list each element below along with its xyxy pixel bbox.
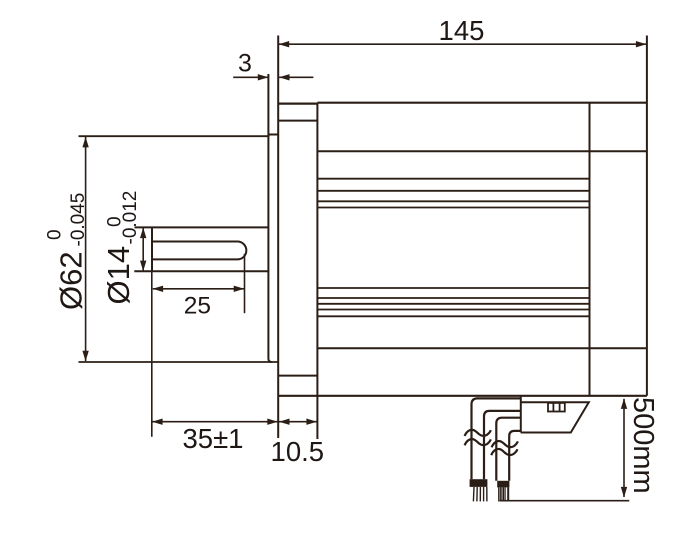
cable 1 wire strands [473,487,487,501]
right tail [279,76,313,78]
cable 1 break wave 1 [465,430,491,436]
up arrow [140,228,146,239]
left arrow [279,419,290,425]
top extension line (flange top) [79,135,270,137]
dim line [85,137,87,361]
right extension line (keyway end) [244,254,246,313]
dim line [142,228,144,271]
upper fin line 4 [317,207,589,209]
right arrow [279,74,290,80]
up arrow [621,398,627,409]
front cap inner bottom line [278,375,317,377]
dim line [623,399,625,497]
slot divider 2 [559,403,561,412]
up arrow [82,137,88,148]
body right edge / 145 extension line [646,36,648,396]
dimension Ø14 [101,191,146,305]
dimension Ø62 [45,136,279,362]
cable 2 wire strands [499,487,505,501]
bottom extension line (wire end) [500,500,630,502]
left tail [233,76,267,78]
upper fin line 3 [317,200,589,202]
dimension 10.5 [271,419,325,468]
lower fin line 3 [317,303,589,305]
lower fin line 1 [317,287,589,289]
svg-text:35±1: 35±1 [183,423,244,454]
left arrow [258,74,269,80]
connector outline with chamfered corner [521,402,589,432]
svg-text:3: 3 [238,50,252,78]
dimension 145 [279,15,647,47]
front end-cap divider [316,103,318,439]
shaft [134,227,268,271]
dimension 500mm [500,397,660,501]
upper fin line 2 [317,190,589,192]
cable 1 (left) [465,398,521,501]
cable 1 break wave 2 [465,439,491,445]
terminal slots rectangle [548,403,565,412]
rear end-cap divider [589,103,591,396]
dimension 35±1 [152,271,278,454]
cable 2 (right) [491,418,521,502]
stator lower boundary line [317,347,647,349]
cable 2 end band [497,481,509,488]
cable 1 inner edge [484,411,521,479]
bottom extension line (flange bottom) [79,361,279,363]
slot divider 1 [552,403,554,412]
flange front face with rounded bottom corner, extended up as extension line for dim 3 [268,74,271,362]
body bottom edge [278,395,647,397]
right arrow [234,286,245,292]
down arrow [82,351,88,362]
cable 2 outer edge [496,418,521,481]
cable 2 break wave 2 [491,449,517,455]
dim line [279,421,317,423]
body top edge [278,102,317,104]
shaft end face [151,227,153,271]
svg-text:-0.045: -0.045 [68,193,89,247]
front cap inner top line [278,120,317,122]
keyway slot with rounded end [153,242,247,260]
cable 2 inner edge [509,431,521,481]
upper fin line 1 [317,178,589,180]
shaft top edge, extended left as Ø14 extension line [135,226,269,228]
svg-text:0: 0 [45,229,66,240]
stator upper boundary line [317,150,647,152]
dimension 25 [153,254,245,320]
right arrow [267,419,278,425]
lower fin line 2 [317,297,589,299]
lower fin line 5 [317,315,589,317]
dim line [153,288,244,290]
cable 2 sheath edge below band [507,487,509,500]
left arrow [153,286,164,292]
shaft bottom edge, extended left as Ø14 extension line [134,270,268,272]
lower fin line 4 [317,309,589,311]
left arrow [152,419,163,425]
down arrow [140,261,146,272]
cable exit connector block [521,396,589,433]
dim line [152,421,278,423]
left arrow [279,41,290,47]
left extension line (shaft end) [151,271,153,436]
right arrow [636,41,647,47]
flange top edge segment [268,134,278,136]
mounting flange [268,36,278,439]
svg-text:Ø14: Ø14 [101,246,136,305]
svg-text:10.5: 10.5 [271,436,325,467]
svg-text:-0.012: -0.012 [120,191,141,245]
dimension 3 [233,50,313,81]
svg-text:145: 145 [439,15,485,46]
down arrow [621,487,627,498]
connector left edge attached to body [520,396,522,433]
cable 1 outer edge [472,398,521,479]
cable 2 break wave 1 [492,441,518,447]
motor main body outline [278,36,647,440]
svg-text:Ø62: Ø62 [54,251,89,310]
dim line [279,43,646,45]
svg-text:25: 25 [184,293,211,320]
right arrow [306,419,317,425]
flange rear face / motor front face, extended as extension line for dims 145, 35±1, 10.5 [277,36,279,439]
svg-text:500mm: 500mm [627,397,659,494]
cable 1 end band [470,479,488,487]
